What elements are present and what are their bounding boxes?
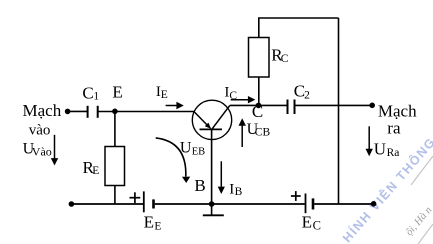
svg-text:Mạch: Mạch	[378, 102, 417, 121]
svg-text:E: E	[112, 82, 122, 101]
svg-text:1: 1	[93, 91, 99, 103]
svg-text:B: B	[194, 176, 205, 195]
svg-text:U: U	[374, 139, 386, 158]
svg-text:U: U	[180, 140, 192, 157]
svg-text:E: E	[92, 165, 99, 177]
svg-text:C: C	[313, 218, 321, 232]
svg-text:C: C	[252, 102, 263, 121]
svg-text:Mạch: Mạch	[23, 101, 62, 120]
svg-text:ra: ra	[387, 119, 401, 138]
svg-text:E: E	[302, 213, 312, 232]
svg-text:C: C	[82, 84, 93, 103]
svg-text:C: C	[281, 53, 289, 65]
svg-text:I: I	[229, 182, 234, 198]
svg-text:2: 2	[304, 90, 310, 102]
svg-text:E: E	[161, 89, 168, 101]
svg-text:EB: EB	[192, 146, 205, 157]
svg-text:vào: vào	[29, 123, 51, 139]
svg-text:Ra: Ra	[387, 147, 400, 159]
svg-text:Vào: Vào	[32, 145, 52, 159]
svg-text:CB: CB	[255, 127, 271, 139]
svg-text:B: B	[235, 186, 243, 198]
svg-text:C: C	[229, 90, 237, 102]
svg-text:E: E	[154, 220, 161, 232]
svg-text:E: E	[144, 213, 154, 232]
